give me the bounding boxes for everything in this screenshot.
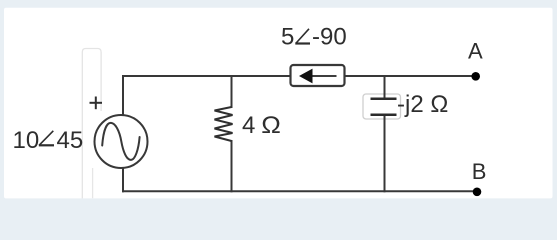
svg-text:A: A [468, 39, 483, 64]
svg-text:B: B [472, 159, 487, 184]
svg-text:5: 5 [281, 24, 294, 51]
svg-text:4: 4 [242, 112, 255, 139]
svg-text:10: 10 [13, 127, 40, 154]
svg-text:-90: -90 [312, 24, 347, 51]
svg-text:45: 45 [57, 127, 84, 154]
svg-text:-j2 Ω: -j2 Ω [397, 91, 448, 118]
svg-text:Ω: Ω [261, 112, 281, 139]
